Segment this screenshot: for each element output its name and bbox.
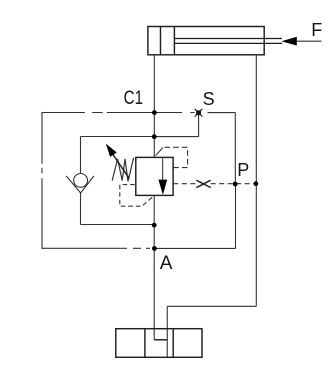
manifold divider left <box>144 329 146 358</box>
wire: A node to P riser horizontal <box>154 247 235 249</box>
svg-text:A: A <box>160 253 173 274</box>
wire: check valve branch top <box>81 136 155 138</box>
manifold internal tick <box>154 339 167 341</box>
wire: S symbol down stub <box>198 115 200 137</box>
node P junction <box>233 182 238 187</box>
manifold boundary bottom edge (dash-dot) <box>42 247 150 249</box>
check valve V seat <box>66 176 94 193</box>
wire: check valve branch left upper <box>80 137 82 174</box>
wire: S to right corner horizontal <box>208 112 236 114</box>
wire: right elbow horizontal <box>167 305 256 307</box>
svg-text:C1: C1 <box>124 88 144 109</box>
manifold divider right <box>172 329 174 358</box>
node C1 junction <box>152 110 157 115</box>
pilot line dashed: spring drain loop <box>120 185 154 207</box>
manifold boundary top edge (dash-dot) <box>42 112 195 114</box>
wire: cylinder cap port down to valve inlet (C1 line) <box>153 55 155 158</box>
pilot line diagonal stub at valve top <box>156 148 163 156</box>
wire: S stub elbow to main line <box>154 136 198 138</box>
node junction below C1 <box>152 134 157 139</box>
pilot orifice <box>196 180 210 187</box>
pilot line dashed: valve to orifice <box>173 183 196 185</box>
cylinder rod top line <box>174 38 282 40</box>
wire: riser up to P node <box>235 184 237 248</box>
manifold block <box>116 329 202 358</box>
svg-text:P: P <box>237 160 249 180</box>
node junction on rod line <box>254 181 259 186</box>
valve internal flow arrowhead <box>158 180 167 195</box>
adjustment arrow head <box>106 144 117 157</box>
cylinder piston line 2 <box>173 27 175 55</box>
wire: right elbow vertical into manifold <box>166 306 168 357</box>
valve spring <box>112 158 133 182</box>
adjustment arrow shaft <box>110 149 130 178</box>
cylinder body <box>148 27 264 55</box>
cylinder rod bottom line <box>174 42 282 44</box>
force F line <box>297 40 322 42</box>
wire: check valve branch bottom <box>81 224 155 226</box>
pilot line dashed: orifice to P and rod line <box>211 183 256 185</box>
manifold boundary left edge (dash-dot) <box>41 112 43 249</box>
force arrow F head <box>282 37 297 46</box>
check valve ball <box>74 174 88 188</box>
node A junction <box>152 246 157 251</box>
svg-text:F: F <box>311 20 322 40</box>
pilot line dashed: top loop to valve right side <box>165 147 188 167</box>
wire: check valve branch left lower <box>80 193 82 224</box>
wire: corner down to P node <box>234 113 236 184</box>
svg-text:S: S <box>203 89 215 109</box>
valve internal flow line <box>162 157 164 181</box>
node junction valve outlet <box>152 223 157 228</box>
cylinder piston line 1 <box>160 27 162 55</box>
wire: valve outlet down to bottom manifold <box>153 196 155 340</box>
counterbalance valve body U1 <box>136 157 173 195</box>
wire: cylinder rod port down right side <box>255 55 257 306</box>
node S plug symbol <box>196 110 201 115</box>
